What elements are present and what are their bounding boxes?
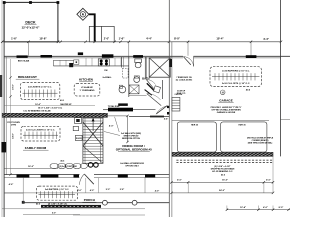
svg-text:FAMILY ROOM: FAMILY ROOM [25,146,47,150]
svg-text:(TYP): (TYP) [11,124,17,126]
svg-text:GARAGE: GARAGE [219,98,233,102]
svg-text:LVL W/ BEARING ON SLAB: LVL W/ BEARING ON SLAB [24,110,51,113]
svg-text:HDR 30: HDR 30 [191,124,199,126]
svg-text:(2) 1-3/4" x 9-1/2": (2) 1-3/4" x 9-1/2" [214,165,230,168]
svg-text:2x10 CLG JSTS @ 16" O.C.: 2x10 CLG JSTS @ 16" O.C. [222,83,250,85]
svg-text:1'-6": 1'-6" [11,37,18,41]
svg-text:4'-0": 4'-0" [90,189,94,192]
svg-text:BOX SLAB: BOX SLAB [18,59,30,62]
svg-text:2'-0": 2'-0" [104,37,110,40]
svg-text:LVL W/ BEARING O.C.: LVL W/ BEARING O.C. [212,170,233,173]
svg-text:16'-0": 16'-0" [28,166,34,168]
svg-text:5'-0": 5'-0" [52,213,56,215]
svg-text:TOTAL RISE: TOTAL RISE [108,105,120,108]
svg-text:2x6 RAFTERS @ 16" O.C.: 2x6 RAFTERS @ 16" O.C. [45,188,70,191]
svg-text:2x8 JOISTS @ 16" O.C.: 2x8 JOISTS @ 16" O.C. [28,87,52,89]
svg-text:OPTIONAL BEDROOM #5: OPTIONAL BEDROOM #5 [116,147,152,151]
svg-text:4'-0": 4'-0" [177,179,182,182]
svg-text:HDR 30: HDR 30 [238,124,246,126]
svg-text:2'-8": 2'-8" [120,189,124,191]
svg-text:RISE 7.75: RISE 7.75 [177,93,186,95]
svg-text:16'-0" 1-3/4" x 9-1/2" LVL: 16'-0" 1-3/4" x 9-1/2" LVL [38,107,63,110]
svg-text:4'-0": 4'-0" [155,189,159,192]
svg-text:4'-0": 4'-0" [109,124,114,127]
svg-text:8'-0": 8'-0" [174,37,181,41]
svg-text:KITCHEN: KITCHEN [79,77,94,81]
svg-text:DOOR: DOOR [76,138,82,140]
svg-text:DROPPED FLUSH BEAM: DROPPED FLUSH BEAM [211,167,235,170]
svg-text:40.5: 40.5 [60,99,64,102]
svg-text:16'-0": 16'-0" [222,180,228,182]
svg-text:1' OVERHANG: 1' OVERHANG [80,89,95,92]
svg-text:24'-0": 24'-0" [219,189,225,192]
svg-text:4' SLAB W/: 4' SLAB W/ [81,86,93,89]
svg-text:(2) 2x10 CONT HDR: (2) 2x10 CONT HDR [59,166,77,168]
svg-text:H: H [222,90,224,94]
svg-text:12'-4": 12'-4" [240,206,246,209]
svg-text:2x4 WALL: 2x4 WALL [102,76,112,79]
svg-text:4'-6": 4'-6" [9,183,14,186]
svg-text:PORCH: PORCH [84,198,96,202]
svg-text:12'-0"x12'-0": 12'-0"x12'-0" [22,25,41,29]
svg-text:16'-4": 16'-4" [35,103,41,106]
svg-text:2x10 CLG JOISTS @ 16" O.C.: 2x10 CLG JOISTS @ 16" O.C. [26,129,55,131]
svg-text:2x10 RAFTERS @ 16" O.C.: 2x10 RAFTERS @ 16" O.C. [222,70,250,73]
svg-text:10'-6": 10'-6" [39,37,47,41]
svg-text:14'-0": 14'-0" [12,133,15,139]
svg-text:DECK: DECK [25,21,36,25]
svg-text:PROVIDE 1 LAYER 5/8" TYPE 'X': PROVIDE 1 LAYER 5/8" TYPE 'X' [211,106,242,109]
svg-text:OPTION ONLY: OPTION ONLY [125,166,139,168]
svg-text:4'-4": 4'-4" [263,37,270,41]
svg-text:4'-0": 4'-0" [77,189,81,192]
svg-text:(SEE THRU DOWN DETAIL): (SEE THRU DOWN DETAIL) [248,142,273,145]
svg-text:MASTER UP: MASTER UP [60,103,72,106]
svg-text:(1) 1-3/4x9-1/4 MIC: (1) 1-3/4x9-1/4 MIC [176,79,193,82]
svg-text:4'-4": 4'-4" [146,37,153,41]
svg-text:BREAKFAST: BREAKFAST [18,75,37,79]
svg-text:BEDROOM OPTION: BEDROOM OPTION [122,138,140,140]
svg-text:5'-0": 5'-0" [106,189,110,191]
svg-text:4'-0": 4'-0" [266,179,271,182]
svg-text:DW: DW [104,70,107,72]
svg-text:GARAGE & HOUSE: GARAGE & HOUSE [217,111,236,114]
svg-text:4'-0": 4'-0" [263,206,268,209]
svg-text:1'-6": 1'-6" [119,37,126,41]
svg-text:8'-0": 8'-0" [279,207,284,209]
svg-text:4'-4": 4'-4" [164,118,168,121]
svg-text:2x10 CLG JSTS: 2x10 CLG JSTS [112,110,129,112]
svg-text:10'-0": 10'-0" [13,84,15,90]
svg-text:10'-4": 10'-4" [216,37,224,41]
svg-text:GYP BD ON WALLS BETWEEN: GYP BD ON WALLS BETWEEN [211,109,241,112]
